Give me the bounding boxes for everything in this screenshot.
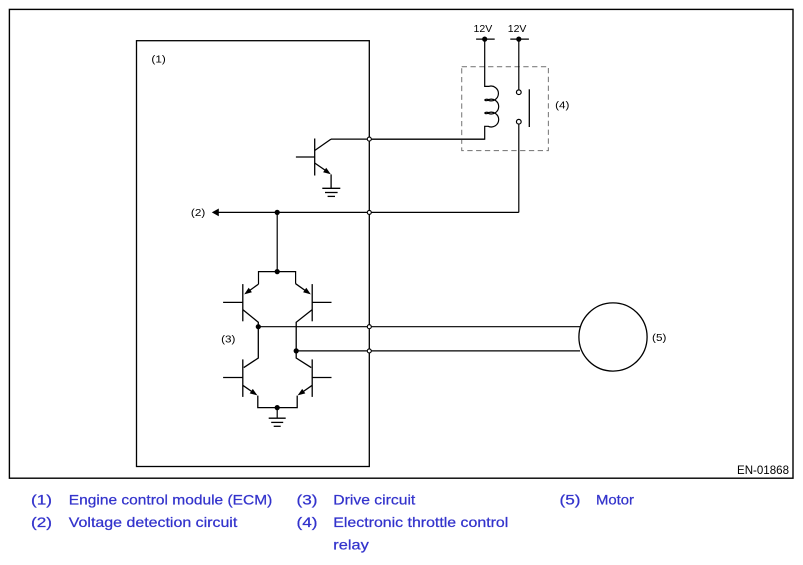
ground G2: [269, 418, 286, 426]
wire output2 to motor: [296, 350, 580, 352]
pin P2: [367, 210, 371, 214]
node C output2: [294, 348, 299, 353]
pin P1: [367, 137, 371, 141]
svg-text:(5): (5): [652, 332, 666, 344]
wire (2) voltage detection line: [213, 211, 519, 213]
svg-text:Electronic throttle control: Electronic throttle control: [333, 514, 508, 530]
relay (4) box: [462, 67, 549, 151]
ECM module box U1: [137, 41, 370, 467]
wire output1 to motor: [258, 326, 580, 328]
wire top rail: [259, 272, 296, 285]
svg-text:(3): (3): [221, 333, 235, 345]
svg-text:EN-01868: EN-01868: [737, 463, 789, 477]
junction dot A: [275, 210, 280, 215]
svg-text:relay: relay: [333, 536, 369, 552]
svg-text:Voltage detection circuit: Voltage detection circuit: [69, 514, 238, 530]
svg-text:(2): (2): [31, 514, 52, 530]
svg-text:(5): (5): [560, 491, 581, 507]
svg-text:(4): (4): [297, 514, 318, 530]
svg-text:Drive circuit: Drive circuit: [333, 491, 415, 507]
ground G1: [322, 188, 340, 196]
pin P3: [367, 325, 371, 329]
svg-text:12V: 12V: [508, 23, 527, 35]
svg-text:(4): (4): [555, 100, 569, 112]
terminal T2: [510, 38, 529, 40]
transistor Q3: [296, 284, 332, 351]
motor M1: [579, 303, 647, 371]
svg-text:(2): (2): [191, 207, 205, 219]
transistor Q4: [223, 327, 277, 408]
wire relay switch to (2) line: [518, 124, 520, 212]
relay coil L1: [372, 39, 499, 139]
relay blade: [528, 89, 530, 127]
wire to ground: [276, 408, 278, 418]
svg-text:(1): (1): [151, 54, 165, 66]
node D emitter common: [275, 405, 280, 410]
svg-text:(1): (1): [31, 491, 52, 507]
wire Q1 collector to relay coil: [331, 138, 485, 140]
terminal T1: [476, 38, 495, 40]
node B output1: [256, 324, 261, 329]
relay contact upper: [518, 39, 520, 89]
transistor Q5: [277, 351, 331, 408]
transistor Q2: [223, 284, 258, 327]
arrowhead (2): [212, 209, 219, 217]
node top (H-bridge feed): [275, 269, 280, 274]
relay contact lower: [516, 119, 521, 124]
pin P4: [367, 349, 371, 353]
wire H-bridge feed: [276, 212, 278, 271]
svg-text:Motor: Motor: [596, 491, 634, 507]
svg-text:12V: 12V: [474, 23, 493, 35]
svg-text:Engine control module (ECM): Engine control module (ECM): [69, 491, 272, 507]
svg-text:(3): (3): [297, 491, 318, 507]
transistor Q1: [296, 139, 331, 189]
